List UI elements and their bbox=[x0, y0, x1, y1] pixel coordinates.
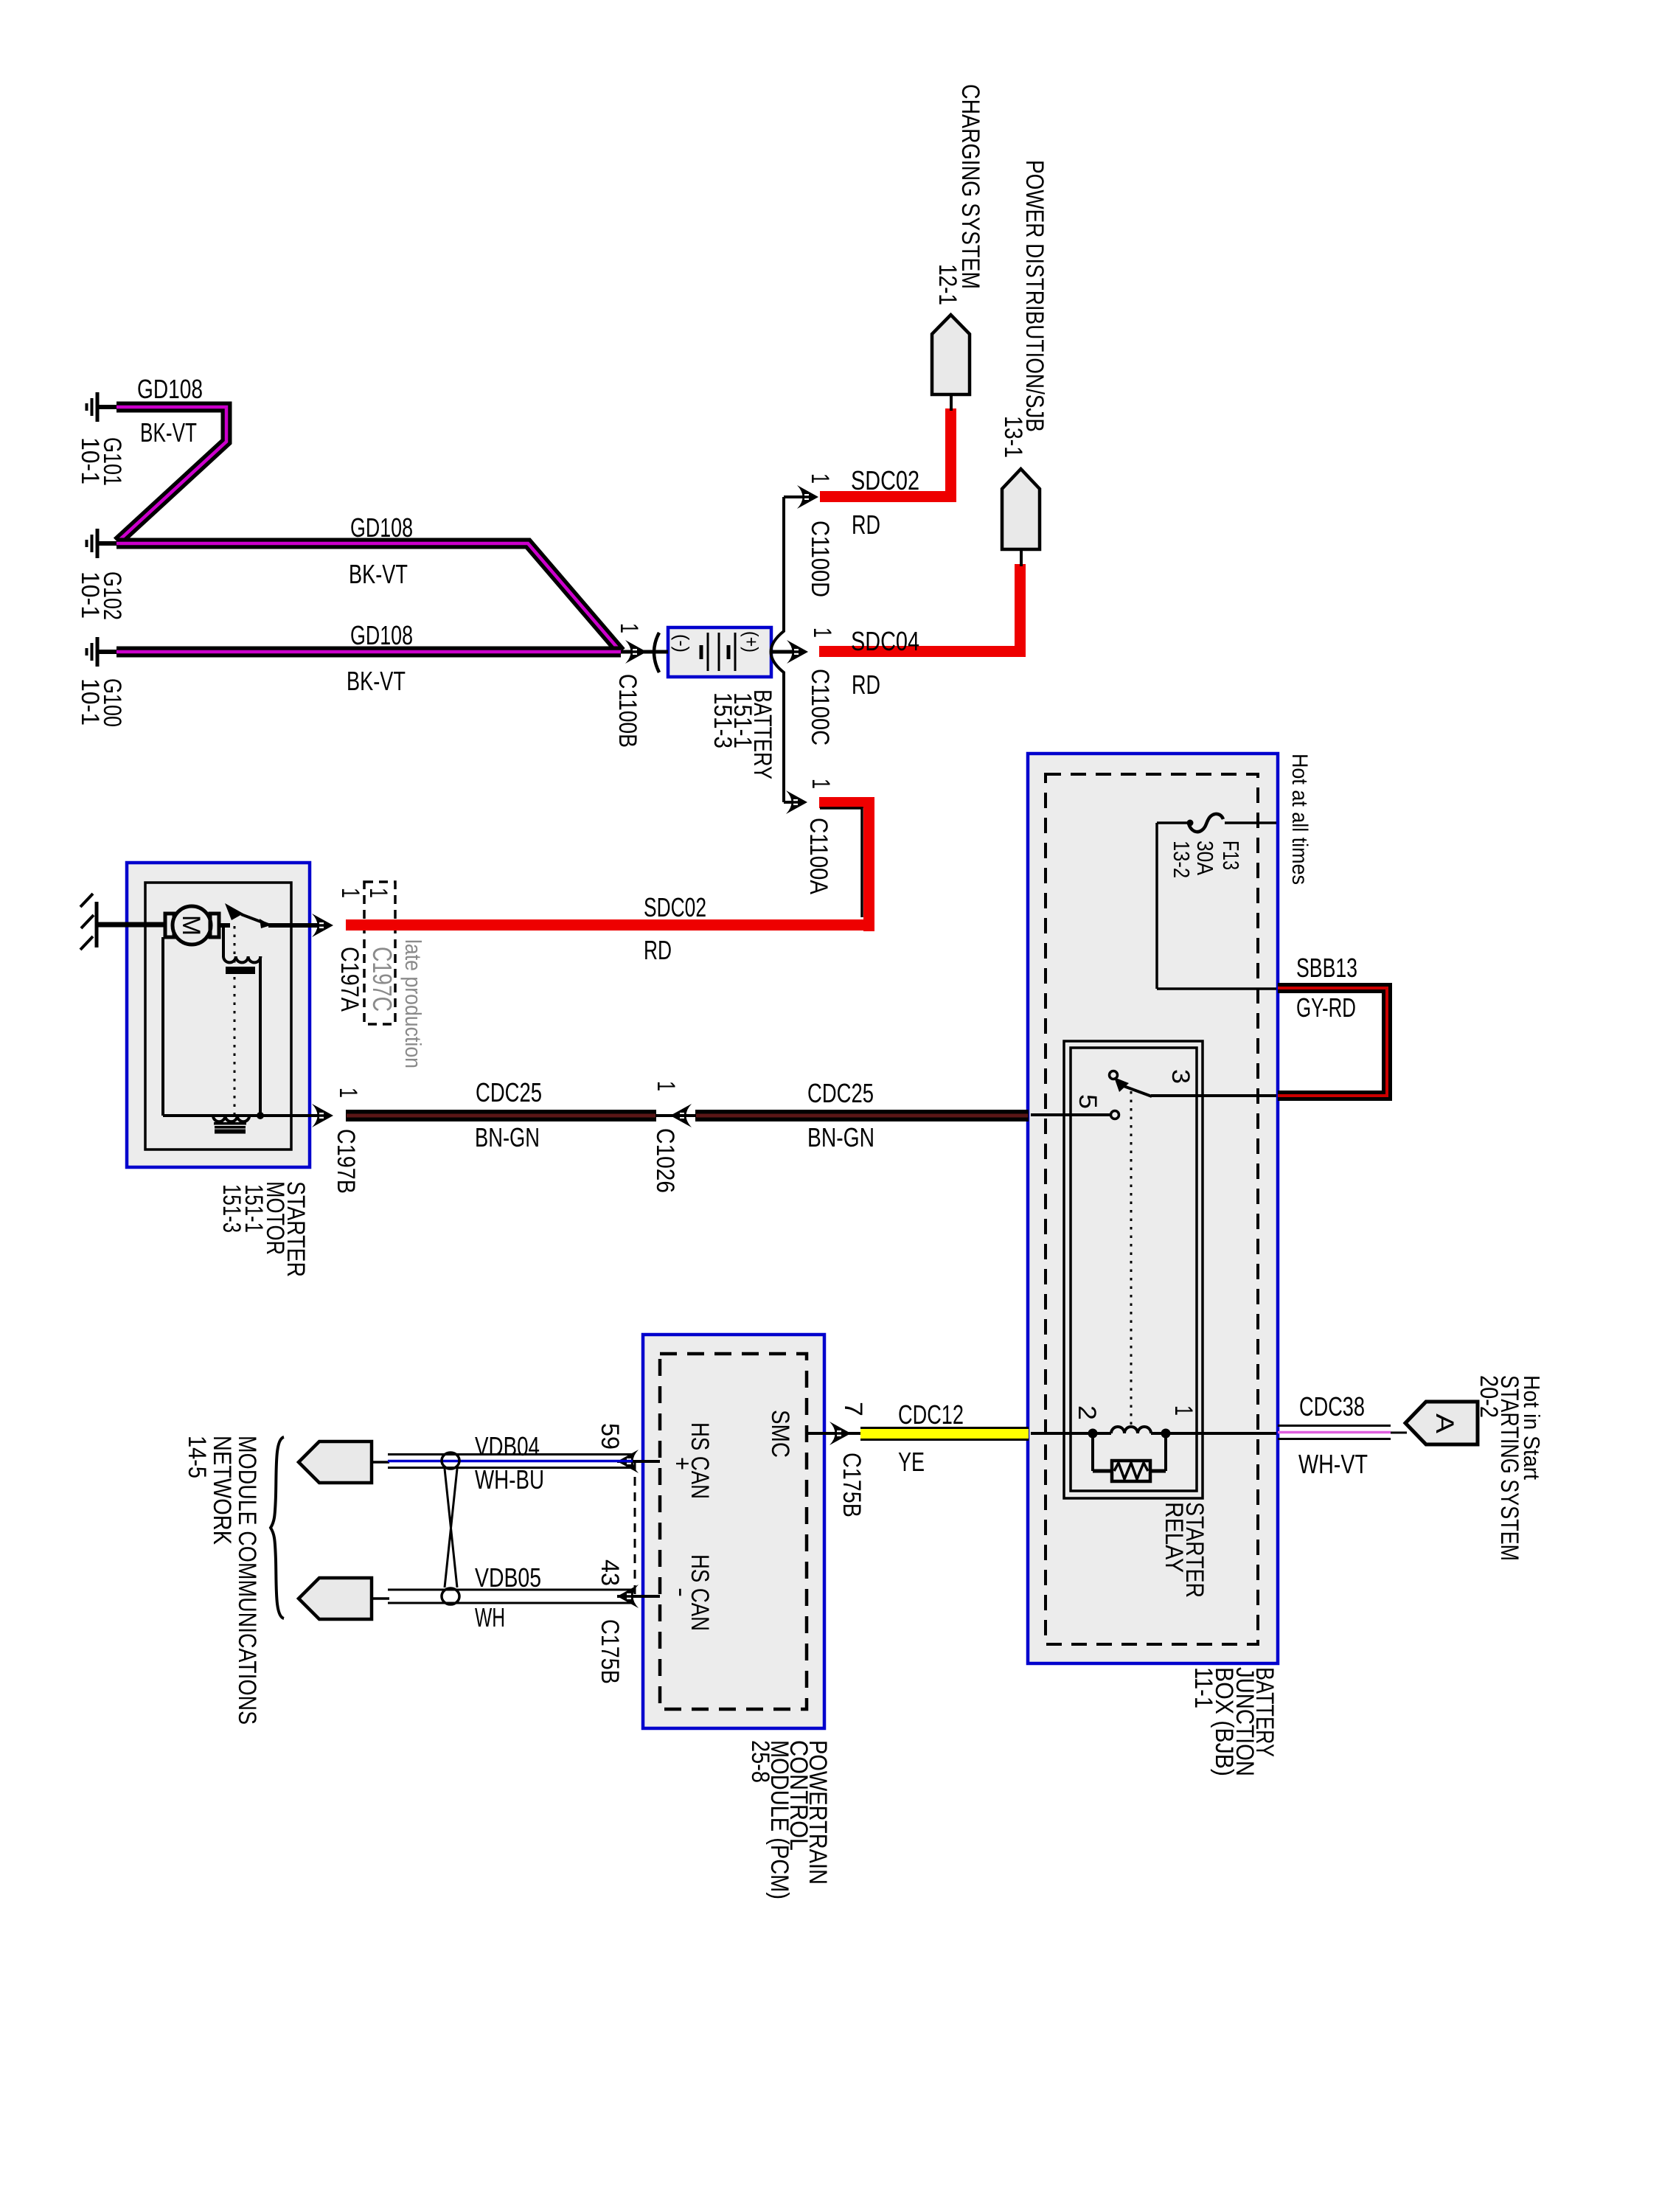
svg-text:C1100C: C1100C bbox=[806, 669, 834, 745]
svg-text:CDC25: CDC25 bbox=[807, 1078, 874, 1108]
label STARTER MOTOR 151-1 151-3 bbox=[218, 1181, 310, 1277]
svg-text:GD108: GD108 bbox=[350, 512, 413, 543]
connector arrow C1100A bbox=[785, 790, 807, 814]
svg-text:14-5: 14-5 bbox=[183, 1436, 211, 1478]
connector arrow C175B pin 43 bbox=[617, 1585, 639, 1608]
svg-text:C1026: C1026 bbox=[651, 1128, 679, 1193]
connector arrow C1100C bbox=[786, 640, 808, 664]
connector C175B dashed link bbox=[634, 1461, 636, 1596]
svg-text:(+): (+) bbox=[740, 631, 762, 653]
relay contact pin 5 bbox=[1111, 1111, 1119, 1119]
svg-text:1: 1 bbox=[334, 1088, 362, 1098]
wire C197B lead bbox=[260, 1114, 322, 1117]
svg-text:RD: RD bbox=[852, 669, 880, 700]
svg-text:YE: YE bbox=[898, 1447, 925, 1477]
solenoid coil upper bbox=[223, 956, 260, 962]
svg-text:20-2: 20-2 bbox=[1475, 1375, 1503, 1418]
wire VDB05 WH bbox=[372, 1590, 633, 1603]
svg-text:CDC12: CDC12 bbox=[898, 1399, 964, 1430]
wire PCM pin 59 lead bbox=[617, 1460, 660, 1463]
svg-text:1: 1 bbox=[615, 623, 643, 633]
connector arrow C175B pin 59 bbox=[617, 1450, 639, 1473]
relay switch pivot bbox=[1110, 1071, 1152, 1097]
svg-text:F13: F13 bbox=[1218, 841, 1244, 870]
motor brush right bbox=[210, 914, 219, 937]
svg-text:RD: RD bbox=[852, 509, 880, 540]
svg-text:SDC04: SDC04 bbox=[851, 626, 919, 656]
label G102 10-1 bbox=[76, 571, 126, 620]
connector arc at battery negative bbox=[654, 633, 659, 672]
label G101 10-1 bbox=[76, 437, 126, 486]
wire relay coil feed bbox=[1031, 1432, 1093, 1435]
svg-text:BK-VT: BK-VT bbox=[347, 666, 406, 696]
wire motor to solenoid switch bbox=[219, 923, 230, 928]
wire relay pin 1 to CDC38 bbox=[1166, 1432, 1276, 1435]
svg-text:POWER DISTRIBUTION/SJB: POWER DISTRIBUTION/SJB bbox=[1020, 160, 1048, 432]
connector C197C dashed box (late production) bbox=[364, 882, 395, 1024]
off-page connector CHARGING SYSTEM bbox=[932, 315, 970, 394]
connector arrow C1100B bbox=[625, 640, 647, 664]
label BATTERY JUNCTION BOX (BJB) 11-1 bbox=[1189, 1667, 1279, 1776]
fuse F13 box bbox=[1157, 823, 1276, 989]
motor return conductor bbox=[161, 937, 164, 1116]
twisted pair symbol bbox=[442, 1453, 459, 1604]
wire GD108 BK-VT from G100 bbox=[116, 647, 621, 658]
wire chassis to motor bbox=[97, 922, 166, 928]
solenoid hold coil lower bbox=[213, 1116, 249, 1121]
solenoid switch blade bbox=[225, 903, 271, 928]
solenoid pull-in coil drop bbox=[222, 927, 225, 957]
svg-text:1: 1 bbox=[336, 888, 364, 898]
svg-text:RD: RD bbox=[644, 935, 672, 965]
motor brush left bbox=[165, 914, 174, 937]
svg-text:late production: late production bbox=[400, 939, 426, 1068]
svg-text:3: 3 bbox=[1166, 1069, 1194, 1084]
chassis ground at starter bbox=[80, 894, 97, 950]
connector arrow C175B pin7 bbox=[829, 1422, 851, 1445]
wire VDB04 WH-BU bbox=[372, 1455, 633, 1468]
svg-text:RELAY: RELAY bbox=[1160, 1502, 1188, 1573]
svg-text:1: 1 bbox=[808, 627, 836, 638]
wire PCM pin 43 lead bbox=[617, 1595, 660, 1598]
svg-text:M: M bbox=[177, 915, 205, 936]
svg-text:WH: WH bbox=[475, 1602, 505, 1632]
wire battery negative lead bbox=[621, 650, 668, 654]
wire C1100D lead bbox=[784, 495, 805, 498]
svg-text:VDB04: VDB04 bbox=[475, 1431, 540, 1461]
svg-text:1: 1 bbox=[807, 779, 835, 789]
label G100 10-1 bbox=[76, 678, 126, 727]
svg-text:2: 2 bbox=[1073, 1405, 1101, 1420]
svg-text:GD108: GD108 bbox=[350, 620, 413, 650]
svg-text:SBB13: SBB13 bbox=[1296, 953, 1357, 983]
svg-text:BN-GN: BN-GN bbox=[475, 1122, 540, 1152]
svg-text:C175B: C175B bbox=[596, 1619, 624, 1684]
svg-text:GD108: GD108 bbox=[137, 374, 203, 404]
svg-text:CHARGING SYSTEM: CHARGING SYSTEM bbox=[956, 84, 984, 289]
off-page connector VDB05 bbox=[299, 1578, 372, 1619]
starter relay outer boxes bbox=[1064, 1041, 1203, 1498]
brace module communications bbox=[271, 1437, 284, 1618]
svg-text:1: 1 bbox=[652, 1081, 680, 1091]
svg-text:WH-VT: WH-VT bbox=[1298, 1449, 1368, 1479]
node pin 2 bbox=[1088, 1429, 1098, 1439]
svg-text:43: 43 bbox=[596, 1559, 624, 1586]
off-page connector POWER DISTRIBUTION/SJB bbox=[1002, 469, 1040, 549]
label POWERTRAIN CONTROL MODULE (PCM) 25-8 bbox=[746, 1740, 832, 1899]
svg-text:C1100B: C1100B bbox=[613, 674, 641, 748]
svg-text:CDC25: CDC25 bbox=[476, 1077, 542, 1107]
ground G100 bbox=[87, 637, 119, 667]
svg-text:12-1: 12-1 bbox=[933, 264, 961, 305]
label Hot in Start STARTING SYSTEM 20-2 bbox=[1475, 1375, 1545, 1561]
relay coil bbox=[1093, 1427, 1166, 1433]
svg-text:C1100D: C1100D bbox=[806, 521, 834, 597]
svg-text:-: - bbox=[667, 1587, 695, 1597]
wire GD108 BK-VT from G102 bbox=[116, 543, 621, 652]
wire SDC02 RD to charging system bbox=[820, 408, 956, 502]
lead to charging system connector bbox=[950, 394, 953, 411]
battery positive bus vertical with terminal arc bbox=[771, 497, 785, 802]
svg-text:7: 7 bbox=[839, 1402, 867, 1416]
wire SBB13 GY-RD loop bbox=[1278, 988, 1387, 1096]
label 7 C175B bbox=[838, 1402, 867, 1517]
connector arrow C1026 bbox=[656, 1104, 695, 1127]
svg-text:10-1: 10-1 bbox=[76, 437, 104, 484]
wire relay pin 3 bbox=[1151, 1094, 1276, 1097]
svg-text:VDB05: VDB05 bbox=[475, 1562, 541, 1593]
svg-text:11-1: 11-1 bbox=[1189, 1667, 1217, 1708]
solenoid core bar bbox=[226, 967, 255, 974]
wire relay pin 5 bbox=[1031, 1113, 1110, 1116]
connector arrow C197B bbox=[311, 1104, 333, 1127]
wire CDC12 YE bbox=[860, 1428, 1029, 1440]
ground G102 bbox=[87, 529, 119, 558]
svg-text:NETWORK: NETWORK bbox=[208, 1436, 236, 1545]
label BATTERY 151-1 151-3 bbox=[709, 689, 776, 779]
svg-text:CDC38: CDC38 bbox=[1299, 1391, 1365, 1422]
svg-text:151-3: 151-3 bbox=[709, 692, 737, 748]
wire SDC04 RD bbox=[819, 564, 1026, 657]
relay linkage dotted bbox=[1130, 1091, 1133, 1429]
svg-text:1: 1 bbox=[1169, 1405, 1197, 1416]
connector arrow C1100D bbox=[796, 485, 818, 509]
svg-text:C175B: C175B bbox=[838, 1453, 866, 1517]
battery junction box (BJB) bbox=[1028, 754, 1278, 1663]
lead to power distribution connector bbox=[1020, 549, 1023, 566]
wire bottom return bbox=[163, 1114, 260, 1117]
svg-text:GY-RD: GY-RD bbox=[1296, 992, 1356, 1023]
svg-text:1: 1 bbox=[806, 473, 834, 484]
connector arrow C197A bbox=[311, 914, 333, 937]
label HS CAN - bbox=[667, 1554, 714, 1631]
svg-text:SDC02: SDC02 bbox=[644, 892, 706, 922]
powertrain control module box (PCM) bbox=[643, 1335, 824, 1728]
wire PCM pin7 lead bbox=[807, 1432, 860, 1435]
relay suppression resistor bbox=[1093, 1435, 1166, 1481]
svg-text:WH-BU: WH-BU bbox=[475, 1464, 544, 1495]
label STARTER RELAY bbox=[1160, 1502, 1208, 1598]
svg-text:C1100A: C1100A bbox=[804, 818, 832, 894]
svg-text:BK-VT: BK-VT bbox=[140, 417, 197, 448]
svg-text:5: 5 bbox=[1074, 1094, 1102, 1109]
svg-text:25-8: 25-8 bbox=[746, 1740, 774, 1783]
wire CDC25 BN-GN second segment bbox=[695, 1110, 1029, 1121]
wire GD108 BK-VT from G101 bbox=[116, 407, 226, 542]
svg-text:1: 1 bbox=[364, 888, 392, 898]
svg-text:A: A bbox=[1430, 1413, 1458, 1433]
battery box bbox=[668, 627, 771, 677]
label F13 30A 13-2 bbox=[1169, 841, 1244, 878]
svg-text:BK-VT: BK-VT bbox=[349, 559, 408, 589]
svg-text:(-): (-) bbox=[671, 634, 693, 653]
svg-text:30A: 30A bbox=[1192, 841, 1218, 875]
starter motor box (blue) bbox=[127, 863, 310, 1167]
svg-text:C197C: C197C bbox=[367, 947, 397, 1012]
svg-text:13-1: 13-1 bbox=[999, 416, 1027, 458]
svg-text:SDC02: SDC02 bbox=[851, 465, 919, 495]
motor M1 circle bbox=[173, 906, 211, 945]
fuse F13 element bbox=[1187, 814, 1277, 832]
off-page connector VDB04 bbox=[299, 1441, 372, 1483]
solenoid right conductor bbox=[259, 956, 262, 1116]
svg-text:C197A: C197A bbox=[335, 947, 364, 1012]
svg-text:13-2: 13-2 bbox=[1169, 841, 1194, 878]
svg-text:151-3: 151-3 bbox=[218, 1184, 246, 1233]
solenoid core bars lower bbox=[214, 1122, 246, 1134]
node pin 1 bbox=[1161, 1429, 1171, 1439]
wire CDC38 WH-VT bbox=[1278, 1426, 1407, 1439]
solenoid linkage dotted bbox=[234, 926, 236, 1114]
svg-text:MODULE COMMUNICATIONS: MODULE COMMUNICATIONS bbox=[233, 1436, 261, 1725]
wire switch to C197A bbox=[268, 923, 322, 928]
off-page connector A (STARTING SYSTEM) bbox=[1405, 1402, 1478, 1444]
svg-text:59: 59 bbox=[596, 1423, 624, 1450]
svg-text:10-1: 10-1 bbox=[76, 571, 104, 619]
ground G101 bbox=[87, 392, 119, 422]
battery cells bbox=[701, 633, 735, 671]
wire C1100A lead bbox=[784, 801, 794, 804]
svg-text:10-1: 10-1 bbox=[76, 678, 104, 726]
svg-text:Hot at all times: Hot at all times bbox=[1287, 754, 1312, 885]
svg-text:BN-GN: BN-GN bbox=[807, 1122, 874, 1152]
svg-text:+: + bbox=[668, 1457, 696, 1470]
label MODULE COMMUNICATIONS NETWORK 14-5 bbox=[183, 1436, 261, 1725]
svg-text:C197B: C197B bbox=[332, 1129, 360, 1194]
wire SDC02 RD from C1100A to starter bbox=[346, 797, 874, 931]
label HS CAN + bbox=[668, 1422, 714, 1499]
svg-text:SMC: SMC bbox=[766, 1410, 794, 1458]
wire battery positive lead bbox=[770, 650, 804, 654]
wire CDC25 BN-GN first segment bbox=[346, 1110, 656, 1121]
